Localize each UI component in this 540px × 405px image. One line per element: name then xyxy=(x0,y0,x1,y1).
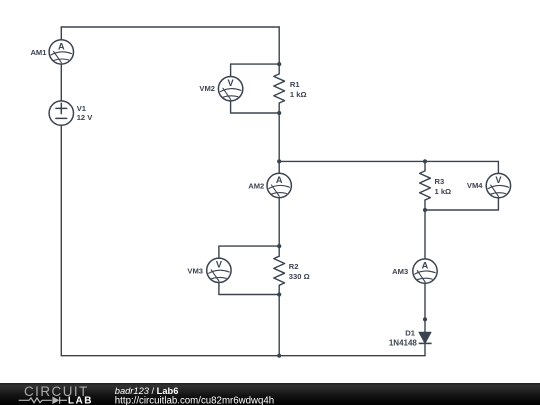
svg-text:R2: R2 xyxy=(289,262,299,271)
svg-text:A: A xyxy=(422,261,429,271)
svg-text:D1: D1 xyxy=(405,328,415,337)
svg-text:VM4: VM4 xyxy=(467,181,483,190)
svg-text:V1: V1 xyxy=(77,104,87,113)
svg-text:A: A xyxy=(276,175,283,185)
svg-text:AM3: AM3 xyxy=(392,267,408,276)
svg-text:LAB: LAB xyxy=(68,395,93,405)
svg-text:V: V xyxy=(216,260,223,270)
svg-text:VM2: VM2 xyxy=(199,84,215,93)
svg-text:AM2: AM2 xyxy=(248,182,264,191)
svg-text:A: A xyxy=(58,41,65,51)
svg-text:VM3: VM3 xyxy=(187,266,203,275)
svg-text:330 Ω: 330 Ω xyxy=(289,272,310,281)
svg-text:1 kΩ: 1 kΩ xyxy=(290,90,307,99)
svg-text:12 V: 12 V xyxy=(77,113,94,122)
svg-text:1 kΩ: 1 kΩ xyxy=(435,187,452,196)
svg-text:R3: R3 xyxy=(435,177,445,186)
svg-text:R1: R1 xyxy=(290,80,300,89)
svg-text:http://circuitlab.com/cu82mr6w: http://circuitlab.com/cu82mr6wdwq4h xyxy=(115,396,274,405)
svg-text:V: V xyxy=(495,175,502,185)
svg-text:1N4148: 1N4148 xyxy=(389,339,418,348)
svg-text:AM1: AM1 xyxy=(30,48,47,57)
svg-text:V: V xyxy=(228,78,235,88)
